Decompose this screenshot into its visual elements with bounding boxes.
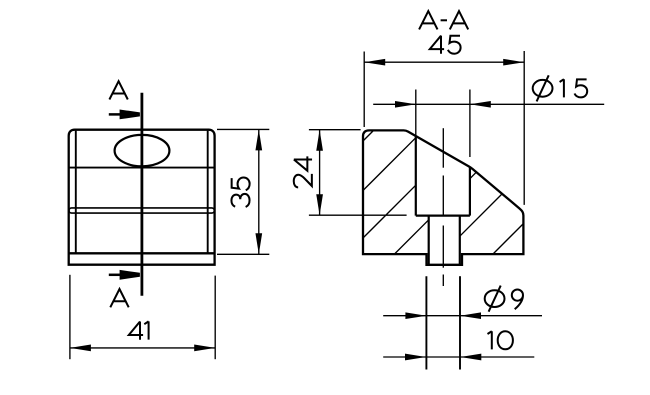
arrowhead 24 top [316,130,323,151]
dimension line 35 [258,129,260,254]
text 45 [430,36,444,54]
section arrow bottom [109,274,123,277]
arrowhead 10 right [460,354,481,361]
oval hole [115,135,170,166]
arrowhead d9 left [405,312,426,319]
dimension 35 [217,129,269,254]
extension line 35 bottom [217,253,269,255]
arrowhead 41 left [70,345,91,352]
dimension line 24 [319,130,321,216]
divider groove (double line) [69,208,214,213]
dimension 45 [364,36,524,205]
hatch line 5 [460,194,502,236]
text 35 (rotated) [231,178,249,208]
arrowhead d15 right [470,101,491,108]
dimension 41 [70,275,215,359]
text d9 [485,286,505,312]
center line dash 3 [442,226,444,268]
center line dash 1 [442,128,444,168]
hatch line 6 [493,224,524,255]
base strip line [69,252,215,254]
hatch line 4a [394,220,428,254]
center line dash 4 [442,275,444,287]
extension line d9 left [425,276,427,369]
dimension line 41 [70,347,215,349]
dimension line d9 [383,315,542,317]
arrowhead d9 right [460,312,481,319]
section arrow top [109,113,123,116]
arrowhead 45 right [503,59,524,66]
extension line d15 right [469,90,471,158]
extension line 35 top [217,128,269,130]
hatch line 1 [363,130,374,141]
extension line 24 top [309,129,361,131]
dimension 10 [383,331,534,360]
arrowhead 10 left [405,354,426,361]
label A-A [419,11,468,29]
section outline [363,130,523,264]
counterbore right edge [469,167,471,216]
divider line upper [69,167,215,169]
hole left edge [428,216,430,265]
section arrow bottom head [120,270,140,280]
text d15 [533,75,553,101]
extension line 45 left [363,52,365,128]
text 10 [488,331,492,349]
hole right edge [459,216,461,265]
dimension 24 [294,130,407,216]
section arrow top head [120,110,140,120]
label A top [109,81,127,99]
extension line 45 right [523,51,525,205]
arrowhead 41 right [194,345,215,352]
hatch line 2 [363,138,416,191]
counterbore left edge [415,136,417,216]
section cutting line A-A [140,93,143,296]
inner edge line right [207,131,209,254]
extension line 41 right [214,276,216,360]
hatch line 4b [470,172,476,178]
arrowhead d15 left [395,101,416,108]
dimension line d15 [373,103,604,105]
dimension diameter 9 [383,276,542,369]
text 24 (rotated) [294,156,312,187]
arrowhead 35 bottom [255,233,262,254]
part outline left view [69,130,215,265]
hatch line 3 [363,185,416,238]
extension line d15 left [415,90,417,136]
dimension diameter 15 [373,75,604,157]
text 41 [129,322,143,340]
extension line 41 left [69,275,71,359]
label A bottom [110,289,128,307]
counterbore bottom [416,215,470,217]
inner edge line left [75,131,77,254]
arrowhead 24 bottom [316,194,323,215]
arrowhead 45 left [364,59,385,66]
dimension line 10 [383,356,534,358]
extension line 24 bottom [309,214,407,216]
arrowhead 35 top [255,129,262,150]
center line dash 2 [442,176,444,216]
extension line d9 right [459,276,461,369]
dimension line 45 [364,61,524,63]
